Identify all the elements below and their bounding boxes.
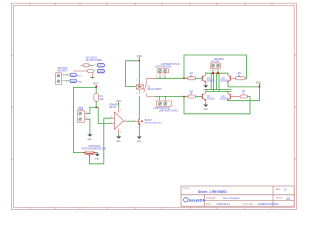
svg-text:AAREFFFFFFFFF: AAREFFFFFFFFF bbox=[258, 202, 280, 206]
svg-text:1: 1 bbox=[210, 70, 211, 72]
transistor Q4 pnp bbox=[227, 93, 240, 101]
svg-text:GND: GND bbox=[203, 90, 208, 92]
ground pot bbox=[95, 153, 100, 157]
limit switch LS2 bbox=[156, 98, 171, 106]
svg-text:TITLE:: TITLE: bbox=[183, 188, 190, 190]
svg-text:2: 2 bbox=[163, 100, 164, 102]
wire driver pin2 down bbox=[217, 71, 219, 73]
wire relay NO to limitswitch row2 bbox=[155, 96, 188, 98]
wire Q4 collector up bbox=[227, 91, 229, 92]
svg-text:Date:: Date: bbox=[206, 203, 212, 206]
svg-text:GND: GND bbox=[87, 139, 92, 141]
svg-text:Your Company: Your Company bbox=[223, 196, 241, 200]
wire row1 feedback loop bbox=[184, 55, 246, 78]
svg-text:1: 1 bbox=[156, 76, 157, 78]
svg-text:2: 2 bbox=[133, 120, 134, 122]
flag VCC switch bbox=[70, 73, 76, 76]
svg-text:VCC: VCC bbox=[98, 64, 103, 67]
wire hbridge mid rail 2 bbox=[206, 90, 231, 92]
svg-text:1: 1 bbox=[136, 80, 137, 82]
node driver pad2 bbox=[217, 72, 219, 74]
diode D2 row bbox=[73, 70, 94, 78]
wire vcc to R1 top bbox=[95, 87, 97, 93]
junction dots bbox=[95, 60, 260, 108]
wire junction to opamp lower input bbox=[98, 107, 111, 123]
node driver pad1 bbox=[212, 72, 214, 74]
wire relay NC to limitswitch row1 bbox=[155, 77, 188, 79]
svg-text:GND: GND bbox=[203, 109, 208, 111]
svg-text:Sheet:: Sheet: bbox=[276, 197, 283, 200]
svg-text:1: 1 bbox=[86, 112, 87, 114]
svg-text:2N2222: 2N2222 bbox=[207, 80, 216, 82]
wire opamp v- to gnd bbox=[118, 133, 120, 135]
wire R3 to Q1 base bbox=[196, 77, 202, 79]
svg-text:VCC: VCC bbox=[256, 81, 261, 84]
svg-text:3: 3 bbox=[111, 117, 112, 119]
transistor Q3 pnp bbox=[227, 74, 235, 82]
svg-text:BC547: BC547 bbox=[145, 120, 153, 122]
svg-text:2: 2 bbox=[95, 70, 96, 72]
svg-text:GND: GND bbox=[95, 159, 100, 161]
wire pnp1 emitter to vcc bbox=[228, 82, 260, 87]
svg-text:3: 3 bbox=[137, 128, 138, 130]
wire to pot left pin bbox=[73, 152, 84, 154]
svg-text:POTENTIOMETER 10K: POTENTIOMETER 10K bbox=[82, 148, 107, 150]
wire Q3 collector up bbox=[227, 73, 229, 74]
node row2 junction bbox=[183, 96, 185, 98]
svg-text:2: 2 bbox=[86, 118, 87, 120]
svg-text:DC-005-5.5MM: DC-005-5.5MM bbox=[86, 60, 102, 62]
svg-text:2023-06-21: 2023-06-21 bbox=[217, 202, 231, 206]
wire limitswitch2 pins up bbox=[159, 97, 165, 98]
svg-text:LIMITSWITCH-NO: LIMITSWITCH-NO bbox=[159, 111, 178, 113]
wire hbridge top rail bbox=[206, 72, 227, 74]
svg-text:Company:: Company: bbox=[206, 198, 216, 200]
resistor R3 row1 bbox=[188, 77, 196, 80]
svg-text:LM741: LM741 bbox=[109, 107, 117, 109]
ground LDR bbox=[88, 133, 93, 137]
node vcc-r1 bbox=[95, 86, 97, 88]
ground Q1 bbox=[204, 84, 209, 88]
node vcc right bbox=[259, 86, 261, 88]
flag VCC jack bbox=[97, 64, 104, 68]
svg-text:2: 2 bbox=[111, 122, 112, 124]
svg-text:2: 2 bbox=[215, 70, 216, 72]
svg-text:8: 8 bbox=[120, 110, 121, 112]
wire pot wiper to opamp upper input bbox=[90, 118, 112, 164]
wire LDR bottom pin to gnd bbox=[87, 119, 90, 133]
flag GND jack bbox=[97, 70, 104, 74]
wire relay left branch bbox=[126, 61, 140, 87]
svg-text:1: 1 bbox=[125, 119, 126, 121]
resistor R1 bbox=[94, 93, 99, 101]
wire pot right to gnd bbox=[94, 152, 97, 154]
EasyEDA logo bbox=[184, 198, 206, 203]
svg-text:SW-SPDT: SW-SPDT bbox=[57, 70, 68, 72]
svg-text:1: 1 bbox=[95, 64, 96, 66]
svg-text:2N2905: 2N2905 bbox=[220, 99, 229, 101]
svg-text:1: 1 bbox=[157, 100, 158, 102]
svg-text:2N2905: 2N2905 bbox=[220, 80, 229, 82]
transistor Q5 bbox=[135, 117, 140, 126]
transistor Q2 npn bbox=[202, 92, 206, 102]
wire Q1 collector up bbox=[205, 72, 207, 75]
svg-text:LIMITSWITCH2: LIMITSWITCH2 bbox=[154, 108, 171, 110]
svg-text:LIMITSWITCH1: LIMITSWITCH1 bbox=[155, 66, 172, 68]
svg-text:VCC: VCC bbox=[71, 75, 76, 77]
wire Q5 emitter to gnd bbox=[138, 127, 140, 136]
wire vcc node to left loop bbox=[73, 87, 96, 89]
svg-text:2N2222: 2N2222 bbox=[207, 99, 216, 101]
wire vcc to relay coil top bbox=[138, 59, 140, 85]
flag GND switch bbox=[70, 79, 76, 82]
transistor Q1 npn bbox=[202, 73, 206, 85]
svg-text:Drawn By:: Drawn By: bbox=[243, 203, 253, 206]
wire Q2 collector up bbox=[205, 90, 207, 93]
wire driver pin1 down bbox=[212, 71, 214, 73]
ground Q5 bbox=[137, 135, 142, 139]
node divider junction bbox=[95, 106, 97, 108]
svg-text:VCC: VCC bbox=[77, 75, 82, 77]
ground opamp bbox=[116, 135, 121, 139]
svg-text:GND: GND bbox=[71, 81, 76, 83]
relay K1 bbox=[136, 78, 155, 96]
svg-text:GND: GND bbox=[98, 70, 104, 73]
wire hbridge mid rail 1 bbox=[206, 89, 231, 91]
svg-text:EasyEDA: EasyEDA bbox=[189, 198, 205, 202]
svg-text:GND: GND bbox=[116, 141, 121, 143]
svg-text:GND: GND bbox=[77, 81, 82, 83]
resistor R5 row1 right bbox=[235, 77, 245, 80]
resistor R4 row2 bbox=[188, 95, 196, 98]
svg-text:VCC: VCC bbox=[93, 83, 98, 86]
node row1 junction bbox=[183, 77, 185, 79]
svg-text:REV:: REV: bbox=[276, 189, 281, 191]
svg-text:4: 4 bbox=[120, 131, 121, 133]
svg-text:GND: GND bbox=[137, 141, 142, 143]
wire row2 feedback loop bbox=[184, 97, 250, 114]
svg-text:2: 2 bbox=[162, 76, 163, 78]
vcc flag divider bbox=[93, 83, 98, 87]
wire relay coil to Q5 collector bbox=[138, 96, 140, 117]
wire R4 to Q2 base bbox=[196, 96, 202, 98]
sheet border frame bbox=[11, 3, 296, 209]
node relay branch bbox=[138, 60, 140, 62]
svg-text:2: 2 bbox=[136, 93, 137, 95]
wire limitswitch1 pins down bbox=[160, 77, 165, 80]
node relay coil mid bbox=[138, 86, 140, 88]
svg-text:NPN-BJT(BC547): NPN-BJT(BC547) bbox=[145, 123, 163, 125]
wire junction horizontal bbox=[90, 106, 98, 108]
diode D1 row bbox=[80, 64, 89, 67]
ground Q2 bbox=[204, 102, 209, 107]
svg-text:1: 1 bbox=[137, 115, 138, 117]
wire opamp out to Q5 base bbox=[127, 120, 135, 122]
wire opamp v+ bbox=[118, 104, 120, 108]
wire left loop vertical to pot bbox=[72, 88, 74, 153]
wire R1 bottom to junction bbox=[95, 101, 97, 107]
svg-text:RELAY-SPDT: RELAY-SPDT bbox=[148, 88, 163, 91]
wire LDR top pin bbox=[87, 107, 90, 113]
title block bbox=[181, 186, 294, 206]
wire pnp2 emitter to vcc bbox=[228, 87, 260, 101]
wire hbridge inner verticals bbox=[211, 73, 219, 91]
svg-text:Sheet_1 REVISED: Sheet_1 REVISED bbox=[198, 190, 227, 194]
resistor R6 row2 right bbox=[240, 95, 248, 98]
